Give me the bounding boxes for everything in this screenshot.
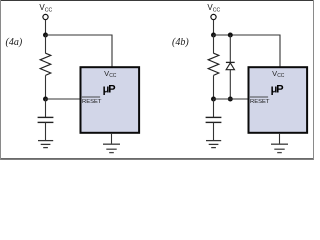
capacitor C2	[206, 117, 222, 122]
wire: node E to U2 RESET pin	[214, 98, 249, 100]
resistor R2	[208, 53, 219, 75]
svg-text:μP: μP	[271, 83, 284, 95]
node E junction dot (RESET node 4b)	[211, 97, 216, 102]
VCC terminal circle (4b)	[211, 14, 216, 19]
node F junction dot (diode bottom 4b)	[228, 97, 233, 102]
pin label RESET with overline (U2)	[250, 97, 270, 105]
resistor R1	[40, 53, 51, 75]
svg-text:(4b): (4b)	[172, 37, 189, 48]
wire: node A down to resistor R1	[45, 35, 47, 53]
diode D1 triangle (anode below, pointing up)	[226, 63, 234, 70]
wire: node D down to diode D1 cathode	[229, 35, 231, 62]
wire: node A to U1 VCC pin	[46, 35, 113, 67]
capacitor C1	[38, 117, 54, 122]
wire: node B to U1 RESET pin	[46, 98, 81, 100]
node A junction dot (4a)	[43, 33, 48, 38]
wire: VCC terminal to node C	[213, 20, 215, 35]
node C junction dot (4b)	[211, 33, 216, 38]
wire: resistor R1 to node B	[45, 75, 47, 99]
ground symbol (below C2)	[206, 141, 221, 148]
svg-text:RESET: RESET	[250, 99, 270, 105]
wire: node C down to resistor R2	[213, 35, 215, 53]
wire: node B down to capacitor C1	[45, 99, 47, 117]
wire: capacitor C1 to ground	[45, 122, 47, 140]
pin label RESET with overline (U1)	[82, 97, 102, 105]
border frame	[0, 0, 314, 160]
ground symbol (below C1)	[38, 141, 53, 148]
wire: diode D1 anode to node F	[229, 70, 231, 99]
microprocessor U1 box	[81, 67, 140, 133]
microprocessor U2 box	[249, 67, 308, 133]
svg-text:μP: μP	[103, 83, 116, 95]
wire: node E down to capacitor C2	[213, 99, 215, 117]
wire: node C to U2 VCC pin	[214, 35, 281, 67]
svg-text:RESET: RESET	[82, 99, 102, 105]
wire: U2 GND pin to ground	[279, 134, 281, 144]
wire: resistor R2 to node E	[213, 75, 215, 99]
wire: VCC terminal to node A	[45, 20, 47, 35]
wire: U1 GND pin to ground	[111, 134, 113, 144]
node D junction dot (diode top 4b)	[228, 33, 233, 38]
diode D1 cathode bar	[226, 61, 235, 63]
svg-text:(4a): (4a)	[6, 37, 23, 48]
wire: capacitor C2 to ground	[213, 122, 215, 140]
VCC terminal circle (4a)	[43, 14, 48, 19]
ground symbol (below U2)	[271, 144, 288, 152]
ground symbol (below U1)	[103, 144, 120, 152]
node B junction dot (RESET node 4a)	[43, 97, 48, 102]
